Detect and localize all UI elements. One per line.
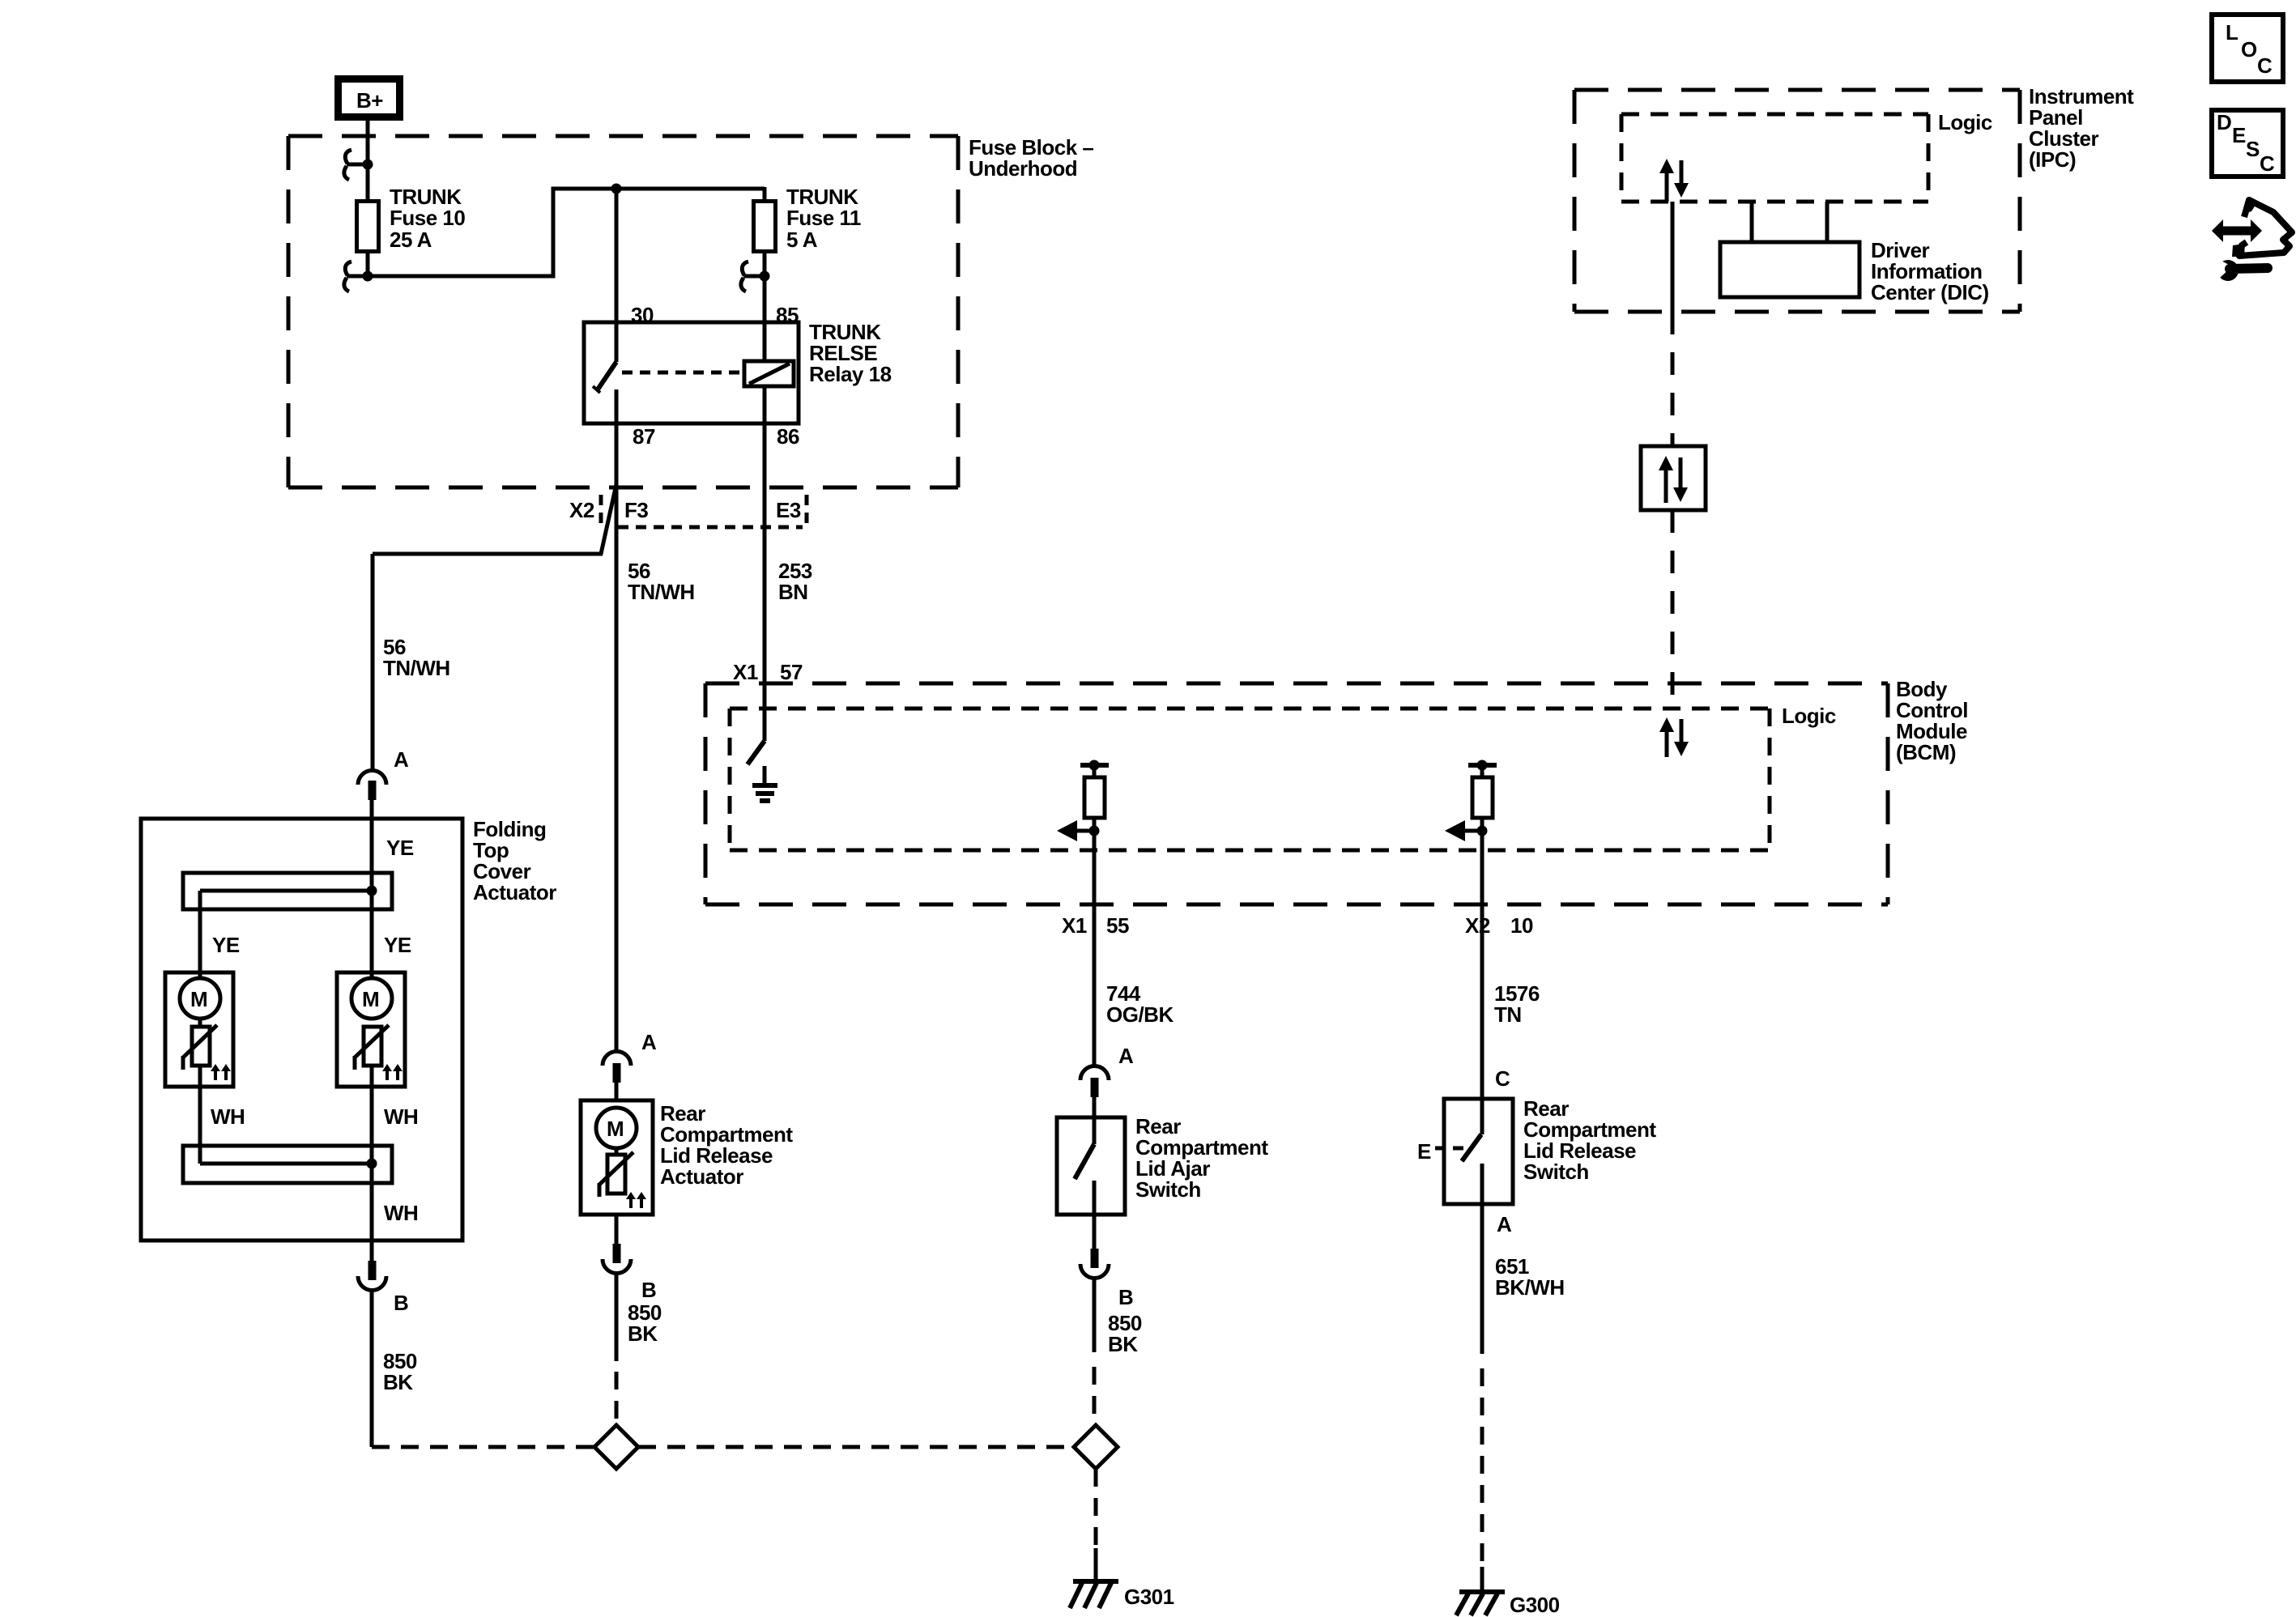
wire WH from right motor <box>370 1066 374 1164</box>
svg-text:(IPC): (IPC) <box>2029 147 2076 172</box>
svg-text:S: S <box>2246 137 2260 161</box>
svg-text:WH: WH <box>384 1104 418 1129</box>
relay coil <box>744 361 794 386</box>
label Driver Information Center (DIC) <box>1871 238 1989 304</box>
svg-text:Actuator: Actuator <box>660 1164 743 1189</box>
svg-text:Logic: Logic <box>1782 704 1836 728</box>
wire YE to right motor <box>370 891 374 979</box>
inline connector B release actuator <box>603 1215 631 1361</box>
relay switch blade <box>593 362 616 393</box>
svg-text:BK/WH: BK/WH <box>1495 1275 1565 1300</box>
label TRUNK RELSE Relay 18 <box>809 320 892 386</box>
svg-text:L: L <box>2226 20 2238 45</box>
BCM pullup resistor X1-55 branch <box>1080 760 1109 832</box>
diagnostic arrow wrench icon <box>2212 198 2292 281</box>
svg-text:Switch: Switch <box>1135 1177 1201 1202</box>
svg-text:YE: YE <box>384 933 411 957</box>
splice diamond 1 <box>594 1425 638 1469</box>
svg-text:X2: X2 <box>569 498 594 522</box>
dashed wire diamond 2 to G301 <box>1094 1469 1098 1548</box>
BCM pullup resistor X2-10 branch <box>1468 760 1497 832</box>
dashed wire to G300 <box>1480 1368 1485 1567</box>
fuse clip top of fuse 10 <box>344 150 373 180</box>
dashed ground run left <box>372 1445 594 1449</box>
B+ battery feed terminal <box>339 79 400 117</box>
wire tap F3 diagonal to left branch <box>373 484 616 554</box>
svg-text:G300: G300 <box>1510 1593 1560 1617</box>
wire label 1576 TN <box>1494 981 1540 1027</box>
svg-text:M: M <box>607 1117 624 1141</box>
svg-text:E3: E3 <box>776 498 801 522</box>
connector dotted line <box>618 526 803 530</box>
svg-text:A: A <box>641 1030 657 1054</box>
fuse block underhood dashed box <box>288 136 958 487</box>
DESC legend box <box>2212 110 2283 177</box>
wire label 850 BK right <box>1108 1311 1142 1356</box>
wire label 651 BK/WH <box>1495 1254 1565 1300</box>
relay link dashed <box>622 371 744 375</box>
svg-text:C: C <box>1495 1066 1510 1091</box>
dashed wire to splice diamond 1 <box>615 1372 619 1423</box>
wire BCM X2-10 down <box>1480 831 1485 1134</box>
bottom busbar of actuator <box>183 1146 392 1183</box>
svg-text:M: M <box>362 987 379 1011</box>
label Rear Compartment Lid Release Actuator <box>660 1101 793 1189</box>
svg-text:BN: BN <box>778 580 808 604</box>
svg-text:BK: BK <box>383 1370 413 1394</box>
connector X2 tick <box>599 495 603 526</box>
wire label 850 BK left <box>383 1349 417 1394</box>
splice diamond 2 <box>1074 1425 1118 1469</box>
svg-text:B: B <box>394 1291 408 1315</box>
svg-text:B: B <box>641 1278 656 1302</box>
wire YE into top busbar <box>370 819 374 891</box>
wire IPC logic to IPC edge <box>1671 202 1675 312</box>
svg-text:BK: BK <box>628 1321 658 1346</box>
svg-text:55: 55 <box>1106 913 1129 938</box>
svg-text:BK: BK <box>1108 1332 1138 1356</box>
svg-text:O: O <box>2241 37 2257 62</box>
switch actuation dashed link E <box>1435 1147 1463 1151</box>
ground G301 <box>1070 1548 1118 1608</box>
fuse clip bottom of fuse 11 <box>741 262 770 291</box>
svg-text:Center (DIC): Center (DIC) <box>1871 280 1989 304</box>
wire BCM X1-55 down <box>1093 831 1097 1067</box>
svg-text:X1: X1 <box>1062 913 1087 938</box>
BCM input arrow X1-55 <box>1057 820 1100 841</box>
motor M release actuator <box>596 1108 646 1208</box>
rear compartment lid release actuator box <box>581 1100 653 1215</box>
wire WH from left motor <box>198 1066 202 1164</box>
svg-text:Fuse 10: Fuse 10 <box>390 206 465 230</box>
connector X2 10 labels <box>1465 913 1533 938</box>
svg-text:B: B <box>1118 1285 1133 1309</box>
rear compartment lid ajar switch box <box>1057 1117 1125 1215</box>
serial data gateway box <box>1641 446 1706 510</box>
IPC serial data arrows <box>1659 159 1689 202</box>
svg-text:C: C <box>2257 53 2273 78</box>
top busbar of actuator <box>183 873 392 909</box>
folding top cover actuator box <box>141 819 462 1240</box>
wire lid release switch down <box>1480 1204 1485 1354</box>
wire label 744 OG/BK <box>1106 981 1174 1027</box>
wire label 850 BK center <box>628 1300 662 1346</box>
wire fuse 11 to relay pin 85 <box>763 253 767 361</box>
BCM internal switch blade to ground <box>748 741 765 764</box>
wire label 56 TN/WH left branch <box>383 635 450 680</box>
BCM input arrow X2-10 <box>1445 820 1488 841</box>
svg-text:5 A: 5 A <box>786 228 818 252</box>
wire label 56 TN/WH center branch <box>628 559 695 604</box>
svg-text:25 A: 25 A <box>390 228 432 252</box>
DIC stub right <box>1825 202 1830 242</box>
svg-text:Actuator: Actuator <box>473 880 556 904</box>
lid ajar switch blade <box>1075 1117 1094 1215</box>
dashed ground run middle <box>638 1445 1074 1449</box>
svg-text:X2: X2 <box>1465 913 1490 938</box>
svg-text:TN: TN <box>1494 1002 1522 1027</box>
BCM internal ground <box>752 766 777 801</box>
motor M right folding top <box>337 972 405 1087</box>
svg-text:Relay 18: Relay 18 <box>809 362 892 386</box>
BCM logic inner dashed box <box>730 709 1770 850</box>
svg-text:E: E <box>2232 123 2246 147</box>
svg-text:C: C <box>2260 151 2275 176</box>
wire YE to left motor <box>198 891 202 979</box>
rear compartment lid release switch box <box>1444 1099 1513 1204</box>
DIC stub left <box>1750 202 1754 242</box>
motor M left folding top <box>165 972 233 1087</box>
body control module BCM dashed box <box>705 683 1888 904</box>
fuse F11 TRUNK Fuse 11 5 A <box>754 202 776 252</box>
svg-text:A: A <box>1497 1212 1512 1236</box>
svg-text:TN/WH: TN/WH <box>383 656 450 680</box>
instrument panel cluster IPC dashed box <box>1574 90 2020 312</box>
connector E3 tick <box>805 495 809 528</box>
IPC logic inner dashed box <box>1621 114 1928 202</box>
dashed serial data wire gateway to BCM <box>1671 510 1675 713</box>
svg-text:D: D <box>2217 110 2231 134</box>
inline connector B lid ajar switch <box>1080 1215 1109 1352</box>
svg-text:A: A <box>394 747 409 772</box>
connector X1 57 labels <box>733 660 803 684</box>
dashed wire to splice diamond 2 <box>1093 1367 1097 1423</box>
LOC legend box <box>2212 15 2283 82</box>
svg-text:YE: YE <box>212 933 240 957</box>
svg-text:Fuse 11: Fuse 11 <box>786 206 861 230</box>
svg-text:Underhood: Underhood <box>969 156 1077 181</box>
svg-text:(BCM): (BCM) <box>1896 740 1956 764</box>
label Folding Top Cover Actuator <box>473 817 556 904</box>
dashed serial data wire IPC to gateway <box>1671 312 1675 446</box>
svg-text:F3: F3 <box>624 498 648 522</box>
svg-text:A: A <box>1118 1044 1134 1068</box>
svg-text:OG/BK: OG/BK <box>1106 1002 1174 1027</box>
wire WH out of actuator <box>370 1164 374 1261</box>
inline connector A lid ajar switch <box>1080 1066 1109 1119</box>
label Body Control Module (BCM) <box>1896 677 1968 764</box>
label Rear Compartment Lid Ajar Switch <box>1135 1114 1268 1202</box>
relay K18 TRUNK RELSE Relay 18 box <box>584 322 799 423</box>
svg-text:E: E <box>1417 1139 1431 1164</box>
wire relay pin 86 down through connector E3 to BCM <box>763 386 767 741</box>
inline connector B folding top actuator <box>358 1261 386 1447</box>
svg-text:M: M <box>190 987 207 1011</box>
lid release switch blade <box>1462 1099 1482 1204</box>
junction node on feed wire <box>611 184 622 194</box>
ground G300 <box>1456 1567 1505 1615</box>
svg-text:WH: WH <box>211 1104 245 1129</box>
svg-text:10: 10 <box>1510 913 1533 938</box>
connector X1 55 labels <box>1062 913 1129 938</box>
driver information center DIC box <box>1720 242 1859 297</box>
wire feed to fuse 11 <box>763 187 767 199</box>
fuse F10 TRUNK Fuse 10 25 A <box>357 202 379 252</box>
wire feed junction to relay pin 30 <box>615 189 619 362</box>
inline connector A folding top actuator <box>358 771 386 820</box>
label Fuse Block - Underhood <box>969 135 1093 181</box>
svg-text:86: 86 <box>777 424 799 449</box>
svg-text:YE: YE <box>386 836 414 860</box>
wire fuse 10 to fuse 11 feed <box>368 189 765 276</box>
svg-text:X1: X1 <box>733 660 758 684</box>
BCM serial data arrows <box>1659 717 1689 757</box>
wire label 253 BN <box>778 559 812 604</box>
svg-text:G301: G301 <box>1124 1585 1174 1609</box>
label Rear Compartment Lid Release Switch <box>1523 1096 1656 1184</box>
inline connector A release actuator <box>603 1052 631 1102</box>
wire relay pin 87 down to actuator <box>615 389 619 1053</box>
label Instrument Panel Cluster (IPC) <box>2029 84 2134 172</box>
wire B+ to fuse 10 <box>366 121 370 199</box>
wire fuse 10 bottom <box>366 253 370 279</box>
svg-text:57: 57 <box>780 660 803 684</box>
svg-text:WH: WH <box>384 1201 418 1225</box>
svg-text:87: 87 <box>633 424 655 449</box>
svg-text:TN/WH: TN/WH <box>628 580 695 604</box>
svg-text:Logic: Logic <box>1938 110 1992 134</box>
svg-text:Switch: Switch <box>1523 1160 1589 1184</box>
wire left branch 56 TN/WH down to node A <box>371 554 375 771</box>
fuse clip bottom of fuse 10 <box>344 262 373 291</box>
svg-text:B+: B+ <box>356 88 383 113</box>
